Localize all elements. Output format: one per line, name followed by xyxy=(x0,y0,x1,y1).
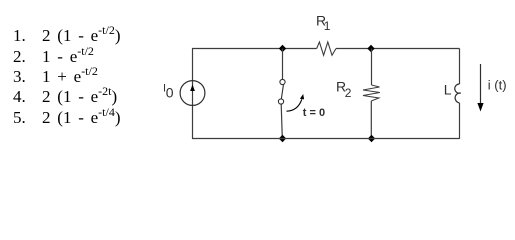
current source I0 xyxy=(180,81,205,106)
node D (bottom junction at R2 branch) xyxy=(368,135,375,142)
svg-text:0: 0 xyxy=(166,85,174,101)
switch actuation arrow xyxy=(287,94,305,111)
node C (bottom junction at switch branch) xyxy=(279,135,286,142)
answer choice 1 xyxy=(13,27,121,44)
answer choice 4 xyxy=(13,88,117,105)
svg-text:i (t): i (t) xyxy=(488,78,507,93)
switch top contact xyxy=(280,79,285,84)
wire right branch top xyxy=(459,49,461,85)
wire R2 branch top xyxy=(371,49,373,86)
wire top (left segment, node A to R1) xyxy=(192,48,317,50)
svg-text:2: 2 xyxy=(345,86,352,100)
wire bottom xyxy=(192,138,460,140)
svg-text:L: L xyxy=(444,81,452,97)
resistor R2 xyxy=(363,85,380,101)
inductor L xyxy=(455,84,461,103)
wire R2 branch bottom xyxy=(370,101,372,139)
switch blade xyxy=(281,85,283,99)
wire right branch bottom xyxy=(459,103,461,139)
wire left branch xyxy=(192,49,194,139)
resistor R1 xyxy=(317,42,336,55)
node B (top junction at R2 branch) xyxy=(367,45,374,52)
switch bottom contact xyxy=(278,99,283,104)
answer choice 2 xyxy=(13,48,94,65)
answer choice 3 xyxy=(13,68,98,85)
label R2 xyxy=(336,79,352,100)
svg-text:t = 0: t = 0 xyxy=(303,107,325,119)
svg-text:1: 1 xyxy=(324,19,331,33)
wire switch branch top xyxy=(282,49,284,80)
answer choice 5 xyxy=(13,109,121,126)
node A (top junction at switch branch) xyxy=(279,45,286,52)
wire top (right segment, R1 to right branch) xyxy=(336,48,460,50)
label R1 xyxy=(316,13,331,33)
label I0 xyxy=(163,83,174,101)
wire switch branch bottom xyxy=(281,104,282,138)
current arrow i(t) xyxy=(477,64,483,112)
